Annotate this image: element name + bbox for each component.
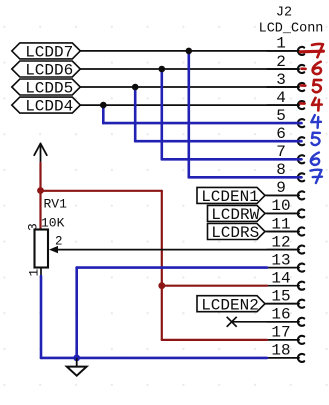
wire blue LCDD5 vertical to pin 6 bbox=[134, 87, 137, 141]
svg-text:12: 12 bbox=[271, 233, 290, 251]
wire LCDD7 to pin 1 bbox=[80, 50, 299, 52]
svg-text:LCDEN1: LCDEN1 bbox=[201, 188, 259, 206]
global label LCDD6 bbox=[12, 61, 81, 80]
connector J2 pin 8 bbox=[267, 161, 304, 181]
annotation blue 4 pin 5 bbox=[311, 115, 321, 128]
wire blue LCDD4 vertical to pin 5 bbox=[102, 105, 105, 123]
wire red to RV1 pin 3 bbox=[39, 191, 41, 230]
wire blue vertical to row 13 bbox=[75, 268, 78, 358]
svg-text:15: 15 bbox=[271, 288, 290, 306]
svg-text:3: 3 bbox=[26, 223, 41, 231]
connector J2 pin 12 bbox=[267, 233, 304, 253]
global label LCDEN1 bbox=[197, 187, 265, 206]
svg-text:LCDD6: LCDD6 bbox=[25, 62, 73, 80]
connector J2 pin 6 bbox=[267, 125, 304, 145]
wire red to pin 14 bbox=[162, 285, 267, 287]
power symbol arrow bbox=[34, 144, 47, 163]
global label LCDEN2 bbox=[197, 296, 265, 315]
ground symbol bbox=[67, 358, 87, 376]
connector J2 pin 5 bbox=[267, 107, 304, 127]
annotation blue 6 pin 7 bbox=[311, 153, 319, 165]
wire red power stem bbox=[39, 163, 41, 191]
annotation red 5 pin 3 bbox=[313, 80, 321, 92]
wire blue bottom horizontal to pin 18 bbox=[41, 357, 267, 360]
connector J2 pin 17 bbox=[267, 324, 304, 344]
annotation blue 5 pin 6 bbox=[312, 133, 320, 145]
wire blue horizontal to pin 8 bbox=[189, 176, 302, 179]
junction on row 3 bbox=[132, 84, 139, 91]
connector J2 pin 4 bbox=[267, 89, 304, 109]
wire red horizontal top bbox=[41, 190, 162, 192]
wire blue horizontal to pin 7 bbox=[162, 158, 302, 161]
RV1 pin 1 stub bbox=[40, 268, 42, 277]
connector J2 pin 3 bbox=[267, 71, 304, 91]
wire LCDD6 to pin 2 bbox=[80, 68, 299, 70]
connector J2 pin 13 bbox=[267, 251, 304, 271]
connector J2 pin 10 bbox=[267, 197, 304, 217]
svg-text:1: 1 bbox=[27, 269, 42, 277]
global label LCDD4 bbox=[12, 97, 81, 116]
wire blue RV1 down bbox=[40, 276, 43, 358]
potentiometer RV1 body bbox=[35, 230, 49, 268]
junction on row 4 bbox=[100, 102, 107, 109]
wire LCDEN1 to pin 9 bbox=[265, 194, 299, 196]
svg-text:2: 2 bbox=[55, 234, 63, 248]
wire blue horizontal to pin 6 bbox=[135, 140, 301, 143]
connector J2 pin 7 bbox=[267, 143, 304, 163]
svg-text:18: 18 bbox=[271, 342, 290, 360]
svg-text:LCDD5: LCDD5 bbox=[25, 80, 73, 98]
wire LCDD5 to pin 3 bbox=[80, 86, 299, 88]
junction red at pin14 branch bbox=[158, 282, 165, 289]
annotation blue 7 pin 8 bbox=[311, 170, 323, 183]
wire stub pin 16 bbox=[232, 321, 299, 323]
svg-text:RV1: RV1 bbox=[44, 197, 68, 212]
connector J2 pin 2 bbox=[267, 53, 304, 73]
svg-text:14: 14 bbox=[271, 270, 290, 288]
junction on row 1 bbox=[186, 48, 193, 55]
svg-text:17: 17 bbox=[271, 324, 290, 342]
svg-text:LCDRW: LCDRW bbox=[211, 206, 259, 224]
annotation red 6 pin 2 bbox=[313, 62, 321, 74]
svg-text:LCDEN2: LCDEN2 bbox=[201, 296, 259, 314]
junction red at power bbox=[37, 187, 44, 194]
global label LCDRW bbox=[208, 205, 266, 224]
connector J2 pin 14 bbox=[267, 270, 304, 290]
connector J2 pin 9 bbox=[267, 179, 304, 199]
wire blue to pin 13 bbox=[77, 266, 267, 269]
annotation red dash pin 2 bbox=[302, 67, 306, 70]
connector J2 pin 15 bbox=[267, 288, 304, 308]
wire LCDD4 to pin 4 bbox=[80, 104, 299, 106]
global label LCDD7 bbox=[12, 43, 81, 62]
svg-text:J2: J2 bbox=[276, 6, 292, 21]
svg-text:13: 13 bbox=[271, 251, 290, 269]
svg-text:LCDD4: LCDD4 bbox=[25, 98, 73, 116]
wire red vertical bbox=[161, 191, 163, 340]
wire LCDRW to pin 10 bbox=[265, 212, 299, 214]
connector J2 pin 18 bbox=[267, 342, 304, 362]
RV1 wiper arrow pin 2 bbox=[49, 246, 299, 253]
connector J2 pin 1 bbox=[267, 35, 304, 55]
annotation red 7 pin 1 with long crossbar bbox=[300, 50, 323, 54]
connector J2 pin 11 bbox=[267, 215, 304, 235]
no-connect X on pin 16 bbox=[227, 317, 237, 327]
svg-text:10K: 10K bbox=[41, 215, 65, 230]
annotation red dash pin 3 bbox=[301, 84, 306, 87]
svg-text:LCD_Conn: LCD_Conn bbox=[259, 22, 324, 37]
svg-text:16: 16 bbox=[271, 306, 290, 324]
wire blue horizontal to pin 5 bbox=[103, 122, 301, 125]
annotation red 4 pin 4 bbox=[312, 98, 322, 111]
wire LCDRS to pin 11 bbox=[265, 231, 299, 233]
wire LCDEN2 to pin 15 bbox=[265, 303, 299, 305]
global label LCDRS bbox=[208, 224, 266, 243]
wire red to pin 17 bbox=[162, 339, 267, 341]
wire blue LCDD6 vertical to pin 7 bbox=[161, 69, 164, 159]
connector J2 pin 16 bbox=[267, 306, 304, 326]
svg-text:LCDRS: LCDRS bbox=[211, 224, 259, 242]
global label LCDD5 bbox=[12, 79, 81, 98]
annotation red dash pin 4 bbox=[300, 102, 304, 105]
junction blue at ground bbox=[73, 355, 80, 362]
junction on row 2 bbox=[159, 66, 166, 73]
wire blue LCDD7 vertical to pin 8 bbox=[188, 51, 191, 177]
svg-text:LCDD7: LCDD7 bbox=[25, 44, 73, 62]
